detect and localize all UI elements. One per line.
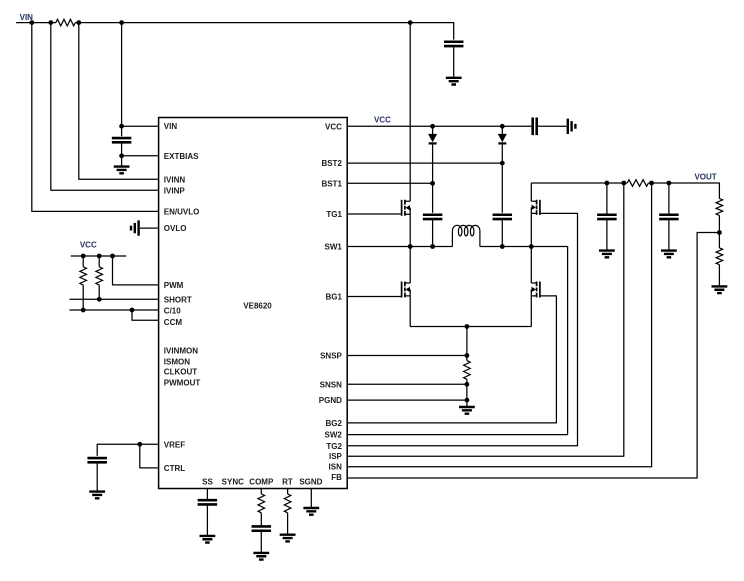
wire bottom sense rail — [410, 326, 531, 328]
svg-text:VCC: VCC — [374, 116, 391, 125]
svg-text:EN/UVLO: EN/UVLO — [164, 207, 200, 216]
wire IVINN — [79, 23, 159, 180]
ground VCC (rotated right) — [568, 119, 576, 134]
junction R1-C/10 — [81, 308, 86, 313]
inductor L1 — [452, 225, 480, 246]
junction SNSN — [465, 382, 470, 387]
wire CCM pin — [132, 310, 159, 320]
wire SNSP pin — [347, 355, 467, 357]
svg-text:VE8620: VE8620 — [243, 301, 272, 310]
svg-text:COMP: COMP — [249, 478, 274, 487]
junction VOUT-CO2 — [667, 181, 672, 186]
wire VIN rail right segment — [75, 23, 453, 40]
wire ISN routing — [347, 183, 651, 467]
capacitor VIN bypass — [112, 138, 132, 142]
junction SW2-M3M4 — [529, 244, 534, 249]
wire D2 anode — [501, 126, 503, 134]
wire M3 drain to SW2 — [530, 247, 532, 284]
wire VOUT rail — [531, 182, 627, 184]
resistor feedback top RFB1 — [716, 199, 723, 216]
capacitor input bulk — [444, 42, 464, 46]
wire VCC rail left — [71, 255, 127, 257]
junction VCC-PWM — [110, 254, 115, 259]
wire M2 source to sense rail — [409, 296, 411, 327]
wire SNSN pin — [347, 383, 467, 385]
wire RFB2 to ground — [718, 265, 720, 287]
svg-text:SYNC: SYNC — [222, 478, 244, 487]
wire VCC pin to cap — [347, 125, 531, 127]
junction EXTBIAS — [119, 153, 124, 158]
capacitor compensation CC — [252, 526, 271, 530]
wire C/10 pin — [70, 309, 159, 311]
resistor compensation RC — [258, 494, 265, 513]
ground PGND — [459, 407, 475, 414]
resistor feedback bottom RFB2 — [716, 248, 723, 265]
diode D2 BST2 — [498, 134, 506, 141]
wire M1 source to SW1 — [409, 214, 411, 246]
wire R2 to SHORT line — [98, 285, 100, 299]
wire BST2 pin — [347, 162, 502, 164]
wire PWM pin — [113, 256, 159, 285]
junction VOUT-CO1 — [605, 181, 610, 186]
junction VCC-R1 — [81, 254, 86, 259]
wire BST1 pin — [347, 182, 432, 184]
wire BG2 gate routing — [347, 296, 556, 423]
transistor M2 (BG1 low-side) — [404, 282, 406, 298]
wire CC to ground — [260, 531, 262, 553]
wire SW2 node and routing to SW2 pin — [347, 247, 567, 435]
op-amp U1 VE8620 controller box — [159, 118, 348, 489]
wire FB node to RFB2 — [718, 233, 720, 248]
svg-text:BST2: BST2 — [321, 159, 342, 168]
wire ISP routing — [347, 183, 624, 456]
junction rail-VINpin — [119, 20, 124, 25]
svg-text:PWMOUT: PWMOUT — [164, 379, 201, 388]
junction VCC-R2 — [97, 254, 102, 259]
svg-text:VOUT: VOUT — [694, 172, 716, 181]
wire VREF pin — [97, 444, 158, 456]
svg-text:ISP: ISP — [329, 452, 343, 461]
wire TG1 gate — [347, 213, 401, 215]
svg-text:ISMON: ISMON — [164, 357, 190, 366]
resistor input current sense — [56, 19, 75, 26]
wire SW1 pin — [347, 246, 452, 248]
junction SW1-CBST1 — [430, 244, 435, 249]
svg-text:EXTBIAS: EXTBIAS — [164, 152, 199, 161]
wire input cap to ground — [453, 46, 455, 78]
junction VCC-D1 — [430, 124, 435, 129]
svg-text:TG2: TG2 — [326, 442, 342, 451]
svg-text:BG2: BG2 — [325, 419, 342, 428]
wire VREF cap to ground — [96, 462, 98, 491]
wire EN/UVLO — [32, 23, 159, 212]
ground input cap — [446, 78, 462, 85]
wire cap to ground with EXTBIAS tap — [121, 142, 123, 166]
transistor M1 (TG1 high-side) — [404, 200, 406, 216]
svg-text:SHORT: SHORT — [164, 295, 192, 304]
junction FB node — [717, 230, 722, 235]
svg-text:SNSP: SNSP — [320, 352, 342, 361]
junction R2-SHORT — [97, 297, 102, 302]
capacitor soft-start CSS — [198, 500, 218, 504]
wire CO2 to ground — [668, 219, 670, 250]
ground SGND — [303, 508, 319, 515]
wire M4 source to SW2 — [530, 213, 532, 246]
wire M4 drain to VOUT rail — [530, 183, 532, 201]
wire D1 cathode to BST1 node — [432, 144, 434, 213]
ground CSS — [200, 536, 216, 543]
wire VOUT rail right — [648, 183, 719, 199]
wire COMP pin — [260, 489, 262, 494]
wire M1 drain to VIN rail — [409, 23, 411, 202]
junction sense rail — [465, 324, 470, 329]
transistor M4 (TG2 high-side) — [536, 200, 538, 215]
wire RSNS to SNSN — [466, 379, 468, 400]
svg-text:ISN: ISN — [329, 463, 343, 472]
wire CBST2 to SW2 — [501, 219, 503, 246]
svg-text:SGND: SGND — [299, 478, 322, 487]
svg-text:CLKOUT: CLKOUT — [164, 368, 197, 377]
junction rail-IVINP — [48, 20, 53, 25]
wire TG2 gate routing — [347, 213, 577, 445]
svg-text:IVINMON: IVINMON — [164, 346, 198, 355]
svg-text:BG1: BG1 — [325, 293, 342, 302]
ground CO1 — [599, 251, 615, 258]
wire R2 top lead — [98, 256, 100, 267]
wire PGND stub — [466, 400, 468, 407]
wire RFB1 to FB node — [718, 215, 720, 232]
wire RT pin — [287, 489, 289, 494]
junction rail-M1 drain — [408, 20, 413, 25]
wire PGND pin — [347, 399, 467, 401]
wire RT to ground — [287, 513, 289, 535]
svg-text:TG1: TG1 — [326, 210, 342, 219]
wire VIN pin — [122, 125, 159, 127]
wire M2 drain to SW1 — [409, 247, 411, 284]
wire IVINP — [51, 23, 159, 191]
wire CO1 top lead — [606, 183, 608, 214]
wire VCC cap to ground — [538, 125, 566, 127]
svg-text:CTRL: CTRL — [164, 464, 185, 473]
svg-text:VIN: VIN — [164, 122, 178, 131]
svg-text:PWM: PWM — [164, 281, 184, 290]
svg-text:RT: RT — [282, 478, 293, 487]
svg-text:CCM: CCM — [164, 318, 183, 327]
svg-text:BST1: BST1 — [321, 179, 342, 188]
ground VIN bypass — [114, 167, 130, 174]
wire CSS to ground — [206, 505, 208, 536]
junction BST2 node — [500, 161, 505, 166]
wire CBST1 to SW1 — [432, 219, 434, 246]
capacitor VREF bypass — [87, 458, 107, 462]
diode D1 BST1 — [429, 134, 437, 141]
svg-text:IVINP: IVINP — [164, 186, 186, 195]
wire M3 source to sense rail — [530, 296, 532, 327]
junction BST1 node — [430, 181, 435, 186]
capacitor VCC decoupling — [533, 118, 537, 136]
resistor RT — [284, 494, 291, 513]
junction VIN pin — [119, 124, 124, 129]
ground feedback divider — [712, 286, 728, 293]
junction SNSP — [465, 353, 470, 358]
junction VOUT-ISN — [649, 181, 654, 186]
wire SGND pin — [310, 489, 312, 508]
wire R1 top lead — [82, 256, 84, 267]
wire VIN rail left segment — [16, 22, 56, 24]
wire D1 anode — [432, 126, 434, 134]
svg-text:PGND: PGND — [319, 396, 342, 405]
junction VREF-CTRL — [137, 442, 142, 447]
wire D2 cathode to BST2 node — [501, 144, 503, 213]
svg-text:OVLO: OVLO — [164, 224, 187, 233]
capacitor bootstrap CBST2 — [493, 215, 513, 219]
ground CO2 — [661, 251, 677, 258]
svg-text:SS: SS — [202, 478, 213, 487]
svg-text:SW2: SW2 — [325, 431, 343, 440]
junction VCC-D2 — [500, 124, 505, 129]
svg-text:VCC: VCC — [80, 241, 97, 250]
svg-text:SW1: SW1 — [325, 243, 343, 252]
svg-text:IVINN: IVINN — [164, 175, 186, 184]
junction SW1-M1 — [408, 244, 413, 249]
svg-text:VREF: VREF — [164, 440, 185, 449]
wire BG1 gate — [347, 296, 401, 298]
svg-text:SNSN: SNSN — [320, 380, 342, 389]
junction rail-EN — [29, 20, 34, 25]
ground COMP — [253, 553, 269, 560]
ground VREF cap — [89, 492, 105, 499]
wire VIN branch down — [121, 23, 123, 137]
wire FB routing — [347, 233, 719, 479]
transistor M3 (BG2 low-side) — [536, 282, 538, 298]
svg-text:C/10: C/10 — [164, 307, 181, 316]
resistor output current sense — [627, 180, 648, 187]
wire CTRL pin — [140, 444, 159, 468]
wire OVLO pin — [140, 227, 159, 229]
wire SHORT pin — [70, 298, 159, 300]
capacitor output CO1 — [597, 215, 617, 219]
resistor pull-up to C/10 — [80, 267, 87, 285]
junction C10-CCM — [130, 308, 135, 313]
resistor pull-up to SHORT — [96, 267, 103, 285]
capacitor output CO2 — [659, 215, 679, 219]
junction SW2-CBST2 — [500, 244, 505, 249]
wire sense rail to SNSP — [466, 327, 468, 361]
wire R1 to C/10 line — [82, 285, 84, 310]
junction PGND — [465, 398, 470, 403]
svg-text:VCC: VCC — [325, 122, 342, 131]
wire CO2 top lead — [668, 183, 670, 214]
wire CO1 to ground — [606, 219, 608, 250]
wire SS pin — [206, 489, 208, 501]
svg-text:FB: FB — [331, 473, 342, 482]
wire RC to CC — [260, 513, 262, 527]
junction VOUT-ISP — [621, 181, 626, 186]
ground RT — [280, 535, 296, 542]
ground OVLO (rotated left) — [131, 220, 139, 235]
wire EXTBIAS pin — [122, 155, 159, 157]
capacitor bootstrap CBST1 — [423, 215, 443, 219]
junction rail-IVINN — [76, 20, 81, 25]
resistor current sense RSNS — [464, 361, 471, 380]
